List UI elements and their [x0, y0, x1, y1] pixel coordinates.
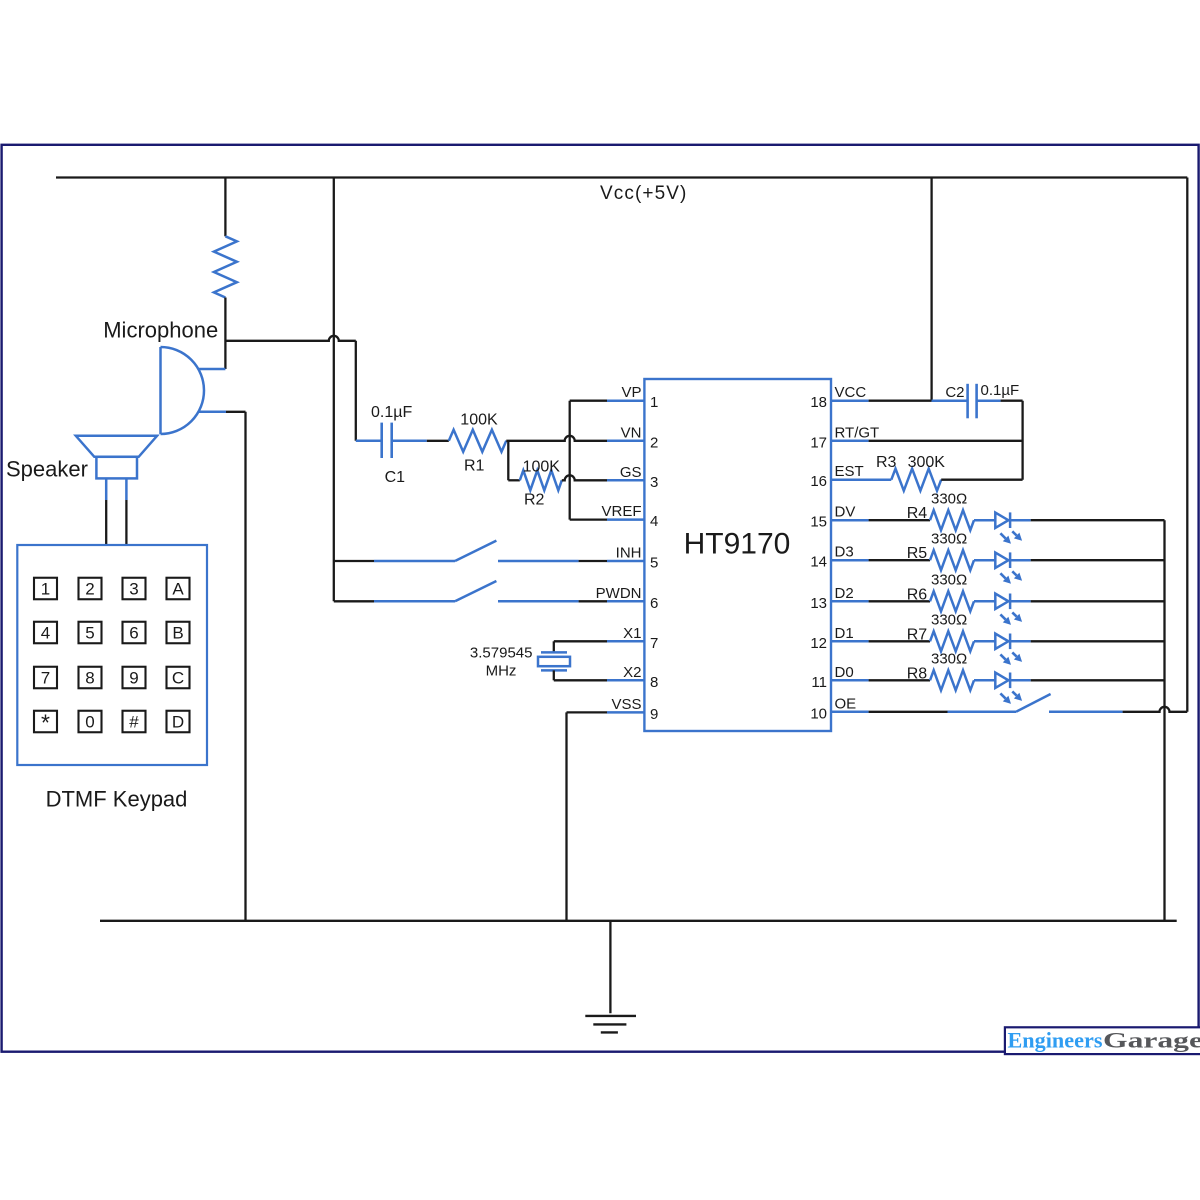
svg-text:11: 11 [811, 674, 827, 691]
LED D1 diode [995, 634, 1008, 649]
svg-text:13: 13 [810, 595, 827, 612]
wire R7 to LED [974, 640, 996, 643]
svg-text:16: 16 [810, 473, 827, 490]
keypad key hash [123, 711, 146, 733]
pin 2 VN [607, 440, 644, 443]
resistor R3 300K [891, 469, 941, 491]
svg-text:12: 12 [810, 635, 827, 652]
svg-text:330Ω: 330Ω [931, 651, 967, 668]
wire Vcc bus to VCC pin 18 [930, 178, 932, 401]
wire LED D1 cathode to common [1009, 640, 1030, 643]
svg-text:X2: X2 [623, 664, 641, 681]
svg-text:VSS: VSS [611, 696, 641, 713]
svg-text:Microphone: Microphone [103, 318, 218, 343]
pin 12 D1 [831, 640, 869, 643]
wire R1 to VN pin 2 (hop over VP-VREF tie) [506, 436, 607, 441]
svg-text:R4: R4 [907, 505, 928, 522]
resistor R5 330ohm [930, 550, 974, 570]
wire to C1 [356, 440, 382, 443]
wire INH switch to pin 5 [579, 560, 607, 562]
wire Vcc branch to switches [333, 178, 335, 602]
resistor mic bias (vertical) [214, 236, 237, 297]
wire to VREF pin 4 [570, 518, 607, 520]
pin 5 INH [607, 560, 644, 563]
EngineersGarage logo box [1005, 1027, 1200, 1054]
wire mic node to C1 (hop over Vcc branch) [225, 336, 355, 341]
keypad key 0 [79, 711, 102, 733]
wire VP-VREF tie [569, 401, 571, 520]
switch S1 INH [374, 560, 455, 563]
svg-text:PWDN: PWDN [596, 585, 642, 602]
wire down to C1 row [355, 341, 357, 441]
resistor R8 330ohm [930, 670, 974, 690]
svg-text:1: 1 [41, 580, 50, 599]
svg-text:330Ω: 330Ω [931, 491, 967, 508]
wire C1 to R1 [392, 440, 427, 443]
keypad key 3 [123, 578, 146, 600]
svg-text:VN: VN [621, 424, 642, 441]
keypad key 7 [34, 667, 57, 689]
wire VCC node to C2 [932, 399, 968, 402]
keypad key 4 [34, 622, 57, 644]
wire Vcc to mic resistor [224, 178, 226, 237]
svg-text:100K: 100K [523, 458, 561, 475]
svg-text:Garage: Garage [1103, 1028, 1200, 1053]
wire RT/GT pin 17 [869, 440, 1023, 442]
svg-text:R6: R6 [907, 586, 928, 603]
svg-text:C1: C1 [385, 469, 406, 486]
svg-text:X1: X1 [623, 625, 641, 642]
wire D1 pin to R7 [869, 640, 930, 642]
ground [609, 921, 611, 1014]
capacitor C2 0.1uF [966, 384, 969, 419]
speaker lead 1 [105, 478, 108, 500]
schematic frame border [2, 145, 1199, 1052]
keypad key star [34, 711, 57, 733]
resistor R1 100K [449, 430, 507, 452]
svg-text:10: 10 [810, 705, 827, 722]
svg-text:14: 14 [810, 554, 827, 571]
svg-text:B: B [172, 624, 183, 643]
mic top terminal [198, 368, 225, 371]
wire D0 pin to R8 [869, 679, 930, 681]
svg-text:MHz: MHz [486, 663, 517, 680]
wire crystal to X2 pin [553, 670, 555, 680]
wire R4 to LED [974, 519, 996, 522]
svg-text:9: 9 [129, 669, 138, 688]
svg-text:VCC: VCC [835, 384, 867, 401]
wire ground bus [100, 920, 1177, 922]
keypad key 1 [34, 578, 57, 600]
op-amp U1 HT9170 IC body [644, 379, 831, 731]
wire R3 to tie [941, 479, 1022, 481]
capacitor C1 0.1uF [380, 423, 383, 458]
svg-text:D: D [172, 713, 184, 732]
wire R6 to LED [974, 600, 996, 603]
svg-text:DTMF Keypad: DTMF Keypad [46, 787, 188, 812]
pin 9 VSS [607, 711, 644, 714]
svg-text:100K: 100K [460, 412, 498, 429]
wire C2 to RT/GT-EST tie [977, 399, 1001, 402]
wire VSS pin 9 to ground bus [567, 711, 608, 713]
svg-text:EST: EST [835, 463, 864, 480]
svg-text:7: 7 [650, 635, 658, 652]
wire LED D3 cathode to common [1009, 559, 1030, 562]
pin 16 EST [831, 478, 869, 481]
wire resistor to microphone node [224, 298, 226, 370]
wire R5 to LED [974, 559, 996, 562]
pin 15 DV [831, 519, 869, 522]
speaker magnet body [96, 457, 137, 479]
svg-text:C: C [172, 669, 184, 688]
svg-text:R3: R3 [876, 454, 897, 471]
microphone MIC1 [159, 347, 162, 434]
wire DV pin to R4 [869, 519, 930, 521]
resistor R7 330ohm [930, 631, 974, 651]
pin 8 X2 [607, 679, 644, 682]
svg-text:Speaker: Speaker [6, 456, 88, 481]
wire PWDN switch to pin 6 [579, 600, 607, 602]
wire R2 to GS pin 3 (hop over VP-VREF tie) [562, 475, 607, 480]
svg-text:8: 8 [650, 674, 658, 691]
svg-text:R2: R2 [524, 491, 545, 508]
svg-text:HT9170: HT9170 [684, 528, 791, 561]
wire LED D2 cathode to common [1009, 600, 1030, 603]
wire OE switch to Vcc (hop over LED common) [1123, 707, 1188, 712]
pin 1 VP [607, 399, 644, 402]
svg-text:VREF: VREF [601, 503, 641, 520]
svg-text:R7: R7 [907, 626, 928, 643]
wire D2 pin to R6 [869, 600, 930, 602]
wire Vcc top bus [56, 176, 1187, 178]
speaker lead 2 [125, 478, 128, 500]
wire mic bottom to ground rail [226, 411, 246, 413]
svg-text:5: 5 [85, 624, 94, 643]
wire LED D0 cathode to common [1009, 679, 1030, 682]
keypad key 8 [79, 667, 102, 689]
svg-text:330Ω: 330Ω [931, 572, 967, 589]
LED D0 diode [995, 673, 1008, 688]
keypad key 9 [123, 667, 146, 689]
LED DV diode [995, 513, 1008, 528]
svg-text:8: 8 [85, 669, 94, 688]
pin 3 GS [607, 479, 644, 482]
svg-text:17: 17 [810, 434, 827, 451]
svg-text:RT/GT: RT/GT [835, 424, 880, 441]
switch S2 PWDN [374, 600, 455, 603]
svg-text:5: 5 [650, 555, 658, 572]
DTMF keypad body [17, 545, 207, 765]
svg-text:*: * [41, 710, 50, 736]
wire R8 to LED [974, 679, 996, 682]
pin 10 OE [831, 711, 869, 714]
svg-text:2: 2 [85, 580, 94, 599]
wire Vcc right drop [1186, 178, 1188, 712]
pin 7 X1 [607, 640, 644, 643]
svg-text:DV: DV [835, 504, 856, 521]
svg-text:R1: R1 [464, 458, 485, 475]
wire junction R1/R2 [507, 441, 509, 481]
wire LED DV cathode to common [1009, 519, 1030, 522]
resistor R2 100K [520, 470, 562, 490]
svg-text:6: 6 [129, 624, 138, 643]
wire EST pin 16 to R3 [831, 478, 891, 481]
svg-text:D3: D3 [835, 544, 854, 561]
pin 13 D2 [831, 600, 869, 603]
speaker SP1 cone [76, 436, 157, 457]
svg-text:1: 1 [650, 394, 658, 411]
keypad key A [167, 578, 190, 600]
svg-text:300K: 300K [908, 454, 946, 471]
svg-text:R8: R8 [907, 665, 928, 682]
svg-text:C2: C2 [945, 384, 964, 401]
svg-text:GS: GS [620, 464, 642, 481]
wire OE pin 10 [869, 711, 948, 713]
keypad key 2 [79, 578, 102, 600]
svg-text:D2: D2 [835, 585, 854, 602]
svg-text:3.579545: 3.579545 [470, 645, 533, 662]
svg-text:0.1µF: 0.1µF [371, 404, 412, 421]
svg-text:15: 15 [810, 514, 827, 531]
wire X1 pin to crystal [554, 640, 607, 642]
keypad key 6 [123, 622, 146, 644]
svg-text:4: 4 [41, 624, 50, 643]
svg-text:#: # [129, 713, 139, 732]
LED D2 diode [995, 594, 1008, 609]
svg-text:R5: R5 [907, 545, 928, 562]
svg-text:VP: VP [621, 384, 641, 401]
wire INH switch feed [334, 560, 374, 562]
svg-text:0.1µF: 0.1µF [981, 382, 1020, 399]
crystal Y1 3.579545 MHz [541, 651, 567, 654]
svg-text:Engineers: Engineers [1008, 1028, 1103, 1053]
pin 18 VCC [831, 399, 869, 402]
resistor R6 330ohm [930, 591, 974, 611]
pin 17 RT/GT [831, 440, 869, 443]
LED D3 diode [995, 553, 1008, 568]
wire tie vertical C2/RT-GT/EST [1021, 401, 1023, 480]
keypad key B [167, 622, 190, 644]
keypad key 5 [79, 622, 102, 644]
svg-text:3: 3 [129, 580, 138, 599]
svg-text:18: 18 [810, 394, 827, 411]
pin 11 D0 [831, 679, 869, 682]
resistor R4 330ohm [930, 510, 974, 530]
svg-text:9: 9 [650, 706, 658, 723]
svg-text:7: 7 [41, 669, 50, 688]
svg-text:6: 6 [650, 595, 658, 612]
wire LED common cathode to ground bus [1163, 520, 1165, 921]
pin 6 PWDN [607, 600, 644, 603]
svg-text:0: 0 [85, 713, 94, 732]
svg-text:Vcc(+5V): Vcc(+5V) [600, 183, 687, 204]
pin 14 D3 [831, 559, 869, 562]
switch S3 OE [948, 711, 1017, 714]
svg-text:D0: D0 [835, 664, 854, 681]
wire to VP pin 1 [570, 400, 607, 402]
svg-text:3: 3 [650, 474, 658, 491]
svg-text:4: 4 [650, 513, 658, 530]
wire PWDN switch feed [334, 600, 374, 602]
svg-text:OE: OE [835, 695, 857, 712]
keypad key D [167, 711, 190, 733]
svg-text:2: 2 [650, 434, 658, 451]
svg-text:INH: INH [616, 545, 642, 562]
svg-text:330Ω: 330Ω [931, 612, 967, 629]
svg-text:D1: D1 [835, 625, 854, 642]
wire D3 pin to R5 [869, 559, 930, 561]
svg-text:330Ω: 330Ω [931, 531, 967, 548]
keypad key C [167, 667, 190, 689]
mic bottom terminal [198, 411, 226, 414]
pin 4 VREF [607, 518, 644, 521]
svg-text:A: A [172, 580, 184, 599]
